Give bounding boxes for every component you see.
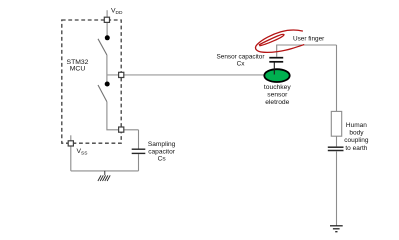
wire Cs bottom to ground rail bbox=[138, 154, 140, 171]
wire down to sampling capacitor bbox=[138, 130, 140, 149]
svg-text:User finger: User finger bbox=[293, 36, 325, 43]
pin VDD (square on box edge) bbox=[104, 17, 109, 22]
user finger scribble bbox=[256, 30, 304, 52]
VDD stub wire bbox=[106, 10, 108, 17]
switch S2 arm bbox=[98, 85, 107, 102]
body branch wire down to resistor bbox=[336, 45, 338, 111]
wire VSS pin down to rail bbox=[70, 146, 72, 171]
svg-text:coupling: coupling bbox=[344, 137, 369, 144]
junction dot switch S1 bbox=[105, 35, 110, 40]
wire Cx top to body branch bbox=[277, 45, 337, 57]
wire S1 to junction and S2 dot bbox=[106, 55, 108, 84]
capacitor Cs plates bbox=[132, 148, 146, 150]
main sense wire to electrode bbox=[107, 74, 265, 76]
svg-text:body: body bbox=[349, 130, 364, 137]
svg-text:Sampling: Sampling bbox=[148, 141, 176, 148]
resistor human body bbox=[331, 111, 341, 136]
svg-text:sensor: sensor bbox=[267, 92, 288, 99]
svg-text:Cs: Cs bbox=[158, 156, 167, 163]
wire electrode to Cx bottom plate bbox=[273, 62, 275, 75]
switch S1 arm bbox=[98, 39, 107, 55]
STM32 MCU dashed box bbox=[62, 20, 121, 143]
capacitor Cx plates bbox=[269, 57, 283, 59]
svg-text:capacitor: capacitor bbox=[148, 148, 176, 155]
svg-text:touchkey: touchkey bbox=[264, 84, 291, 91]
pin sampling I/O (square on box edge) bbox=[119, 127, 124, 132]
wire VDD pin to switch dot bbox=[106, 22, 108, 36]
svg-text:eletrode: eletrode bbox=[265, 99, 289, 106]
pin sense I/O (square on box edge) bbox=[119, 72, 124, 77]
svg-text:Human: Human bbox=[346, 122, 367, 129]
wire resistor to capacitor bbox=[336, 136, 338, 146]
svg-text:to earth: to earth bbox=[345, 145, 367, 152]
signal ground symbol bbox=[98, 171, 110, 181]
wire S2 to sampling pin corner bbox=[107, 102, 139, 130]
ground rail bbox=[71, 170, 139, 172]
touchkey sensor electrode bbox=[264, 69, 289, 82]
svg-text:Sensor capacitor: Sensor capacitor bbox=[217, 53, 266, 60]
svg-text:VDD: VDD bbox=[111, 8, 123, 16]
pin VSS (square on box edge) bbox=[68, 141, 73, 146]
wire capacitor to earth ground bbox=[336, 151, 338, 225]
svg-text:MCU: MCU bbox=[70, 66, 86, 73]
svg-text:Cx: Cx bbox=[237, 61, 246, 68]
earth ground symbol bbox=[330, 226, 343, 232]
junction dot switch S2 bbox=[105, 82, 110, 87]
VSS stub inside box bbox=[70, 135, 72, 141]
svg-text:VSS: VSS bbox=[77, 148, 88, 156]
capacitor body coupling plates bbox=[328, 146, 344, 148]
